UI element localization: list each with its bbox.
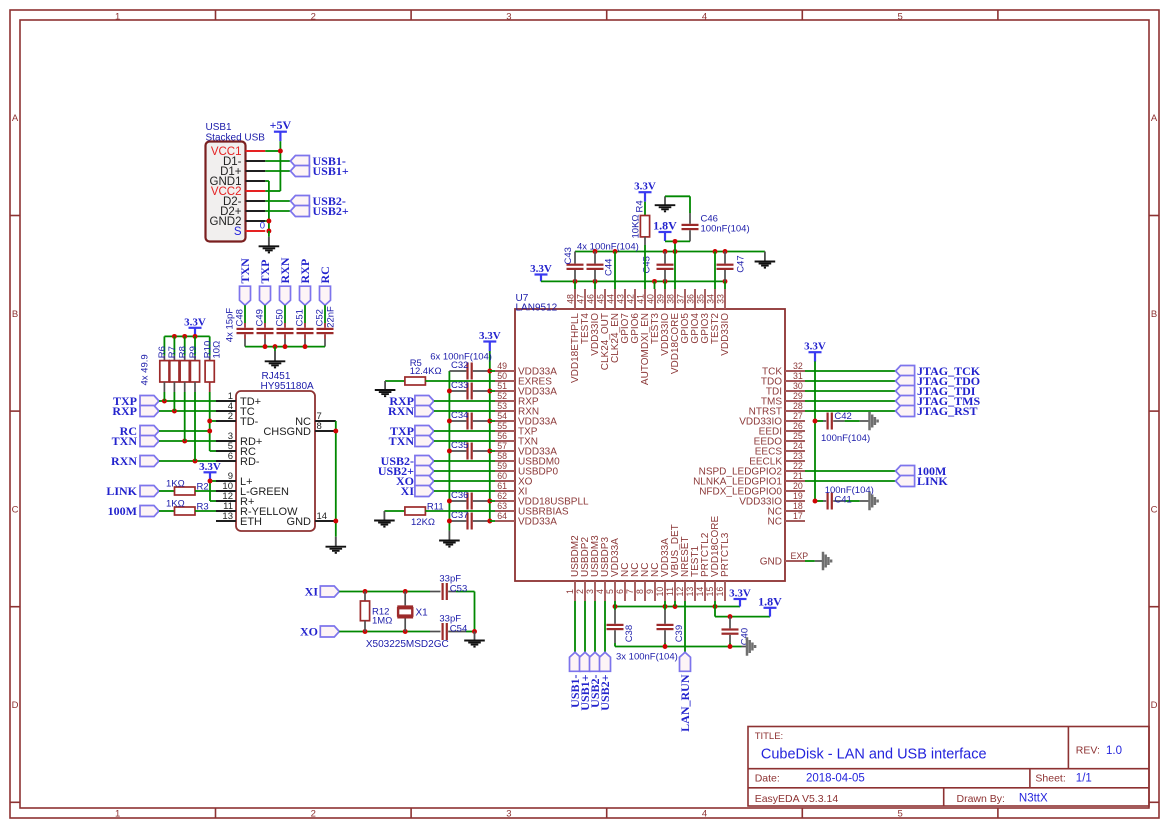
svg-text:2: 2 [228,411,233,422]
U7 pin 15 VDD18CORE [705,516,721,601]
ground at C41 [870,492,878,511]
svg-text:48: 48 [565,294,575,304]
svg-text:X503225MSD2GC: X503225MSD2GC [366,639,449,650]
junction 3.3V rail [573,279,578,284]
junction L+ [208,479,213,484]
port JTAG_TCK [896,364,981,378]
svg-text:50: 50 [497,371,507,381]
svg-text:RXP: RXP [298,259,312,284]
port RXP [298,259,312,305]
svg-text:JTAG_RST: JTAG_RST [917,404,977,418]
svg-text:TXN: TXN [112,434,138,448]
svg-text:C41: C41 [834,495,851,506]
svg-text:C48: C48 [234,309,245,326]
svg-text:C42: C42 [834,411,851,422]
label 4x 15pF [225,308,236,343]
label X503225MSD2GC [366,639,449,650]
svg-text:USB1+: USB1+ [313,164,349,178]
wire gnd to C46 top [665,196,690,213]
wire D to USB2- [265,200,290,202]
wire 3.3V to pin row 421 [490,420,495,422]
svg-text:XI: XI [401,484,415,498]
wire R9 to RXN [194,392,196,461]
capacitor C48 [234,305,253,346]
svg-text:17: 17 [793,511,803,521]
svg-text:PRTCTL3: PRTCTL3 [720,532,731,577]
svg-text:13: 13 [222,511,233,522]
U7 pin 26 EEDI [759,421,805,437]
svg-text:100nF(104): 100nF(104) [701,224,750,235]
ground below cap bus [265,347,286,368]
junction C54/gnd [472,629,477,634]
svg-text:C38: C38 [624,625,635,642]
svg-text:22nF: 22nF [326,306,337,328]
U7 pin 32 TCK [762,361,805,377]
ground at EXP pin [823,552,831,571]
resistor R4 [631,200,650,238]
RJ451 pin 7 NC [295,411,336,428]
port JTAG_TMS [896,394,981,408]
U7 pin 25 EEDO [754,431,805,447]
wire XO to U7 [434,480,495,482]
wire TXP row [159,399,216,404]
U7 pin 64 VDD33A [495,511,557,527]
svg-text:Sheet:: Sheet: [1035,772,1065,784]
svg-text:R9: R9 [188,346,199,358]
svg-text:35: 35 [695,294,705,304]
U7 pin 27 VDD33IO [739,411,805,427]
svg-text:34: 34 [705,294,715,304]
U7 pin 41 AUTOMDXI_EN [635,289,651,385]
svg-text:9: 9 [645,589,655,594]
port TXN [112,434,159,448]
junction C33 right [487,389,492,394]
junction C40 bottom [728,644,733,649]
capacitor C34 [449,410,489,429]
svg-text:USB2+: USB2+ [598,674,612,710]
svg-text:A: A [1151,113,1158,124]
wire U7 to JTAG_TCK [805,370,896,372]
wire pin15 to rail [714,601,716,607]
U7 pin 3 USBDM3 [585,535,601,601]
port 100M [108,504,159,518]
svg-text:C52: C52 [314,309,325,326]
port LINK [896,474,949,488]
RJ451 pin 3 RD+ [216,431,262,448]
svg-text:100nF(104): 100nF(104) [825,485,874,496]
U7 pin 9 NC [645,563,661,601]
svg-text:3.3V: 3.3V [199,461,221,473]
svg-text:20: 20 [793,481,803,491]
U7 pin 28 NTRST [749,401,805,417]
svg-text:3.3V: 3.3V [479,330,501,342]
U7 pin 46 VDD33IO [585,289,601,356]
U7 pin 21 NLNKA_LEDGPIO1 [693,471,805,487]
U7 pin 5 VDD33A [605,538,621,601]
svg-text:59: 59 [497,461,507,471]
junction C42 [813,419,818,424]
svg-text:2: 2 [311,808,316,819]
U7 pin 20 NFDX_LEDGPIO0 [699,481,805,497]
svg-text:CHSGND: CHSGND [263,426,311,438]
USB1 pin GND1 [210,176,266,188]
port USB2+ bottom [598,652,612,710]
port USB1+ [290,164,348,178]
junction C41 [813,499,818,504]
capacitor C40 [722,617,751,647]
junction resistor bus [172,334,177,339]
wire D to USB1+ [265,170,290,172]
wire 1.8V to C46/pin38 [665,241,690,289]
label C43 [563,247,574,264]
svg-text:29: 29 [793,391,803,401]
junction R10/RC [207,429,212,434]
svg-text:13: 13 [685,587,695,597]
junction resistor bus [182,334,187,339]
svg-text:R3: R3 [197,502,209,513]
wire pin5 to rail [614,601,616,607]
wire USB2- to U7 [434,460,495,462]
port 100M [896,464,947,478]
svg-text:40: 40 [645,294,655,304]
ground above C46 [655,196,676,211]
svg-text:19: 19 [793,491,803,501]
wire C53 to C54 [474,592,476,632]
svg-text:TXN: TXN [389,434,415,448]
junction S [266,229,271,234]
svg-text:10: 10 [655,587,665,597]
port TXP [258,260,272,306]
svg-text:C44: C44 [604,259,615,276]
junction C34 right [487,419,492,424]
wire R10 to TD-/RC [210,392,216,451]
junction C35 right [487,449,492,454]
junction C34 left [447,419,452,424]
junction 3.3V rail below [663,604,668,609]
ground below C54 [464,632,485,647]
label 22nF [326,306,337,328]
wire GND EXP to ground [805,560,824,562]
junction 3.3V rail below [613,604,618,609]
svg-text:10KΩ: 10KΩ [631,214,642,238]
svg-text:LINK: LINK [106,484,137,498]
junction cap bus [283,344,288,349]
svg-text:58: 58 [497,451,507,461]
U7 pin 8 NC [635,563,651,601]
svg-text:RD-: RD- [240,456,260,468]
svg-text:6: 6 [228,451,233,462]
svg-text:TD-: TD- [240,416,259,428]
capacitor C49 [254,305,273,346]
svg-text:2: 2 [575,589,585,594]
junction C36 right [487,499,492,504]
svg-text:12KΩ: 12KΩ [411,517,435,528]
svg-text:C51: C51 [294,309,305,326]
port JTAG_TDI [896,384,976,398]
U7 pin 13 TEST1 [685,545,701,601]
resistor R8 [178,336,190,392]
wire U7 to JTAG_TMS [805,400,896,402]
svg-text:C43: C43 [563,247,574,264]
svg-text:1: 1 [565,589,575,594]
wire CHSGND to GND vertical [335,421,337,537]
svg-text:10Ω: 10Ω [212,341,223,359]
U7 pin 40 TEST3 [645,289,661,344]
svg-text:ETH: ETH [240,516,262,528]
connector RJ451 body [236,371,315,531]
svg-text:3.3V: 3.3V [634,181,656,193]
power 1.8V above U7 [653,219,677,242]
junction cap bus [273,344,278,349]
svg-text:42: 42 [625,294,635,304]
svg-text:38: 38 [665,294,675,304]
port XI crystal [305,585,340,599]
port USB1- bottom [568,652,582,708]
svg-text:LAN9512: LAN9512 [516,303,558,314]
wire 3.3V to pin row 391 [490,390,495,392]
power 3.3V at RJ451 [199,461,221,481]
U7 pin 33 VDD33IO [715,289,731,356]
junction XO/X1 [403,629,408,634]
svg-text:8: 8 [635,589,645,594]
svg-text:RXN: RXN [278,257,292,283]
USB1 pin D1- [223,156,265,168]
svg-text:1: 1 [115,11,120,22]
junction pin14 [333,519,338,524]
U7 pin 62 VDD18USBPLL [495,491,589,507]
port JTAG_TDO [896,374,981,388]
svg-text:+5V: +5V [270,118,292,132]
svg-text:D: D [12,700,19,711]
svg-text:B: B [12,309,18,320]
junction C40 top [728,614,733,619]
junction C36 left [447,499,452,504]
connector USB1 body [206,122,266,242]
wire USB2+ to U7 [434,470,495,472]
port RXP [112,404,159,418]
junction XO/R12 [363,629,368,634]
U7 pin 12 NRESET [675,536,691,601]
wire pin10 to rail [664,601,666,607]
svg-text:3: 3 [585,589,595,594]
svg-text:1KΩ: 1KΩ [166,499,185,510]
capacitor C36 [449,490,489,509]
junction C35 left [447,449,452,454]
ground right end of gnd rail [755,252,776,268]
svg-text:RXN: RXN [388,404,414,418]
svg-text:39: 39 [655,294,665,304]
U7 pin 22 NSPD_LEDGPIO2 [699,461,805,477]
svg-text:TXP: TXP [258,260,272,284]
svg-text:1.8V: 1.8V [758,594,782,608]
svg-text:0: 0 [260,221,265,232]
svg-text:5: 5 [897,11,902,22]
wire GND1 to GND2/S [265,181,269,231]
wire 3.3V rail above U7 [541,280,725,282]
svg-text:12: 12 [675,587,685,597]
U7 pin 17 NC [768,511,805,527]
capacitor C35 [449,440,489,459]
power 3.3V right of U7 [804,341,826,362]
wire RXP row [159,409,216,414]
RJ451 pin 8 CHSGND [263,421,335,438]
junction gnd rail [723,249,728,254]
svg-text:18: 18 [793,501,803,511]
capacitor C51 [294,305,313,346]
U7 pin 60 XO [495,471,533,487]
wire 3.3V bus above resistors [164,335,209,337]
port TXP [390,424,434,438]
wire U7 to JTAG_RST [805,410,896,412]
svg-text:1.0: 1.0 [1106,745,1122,757]
U7 pin 49 VDD33A [495,361,557,377]
svg-text:30: 30 [793,381,803,391]
capacitor C53 [439,573,474,600]
svg-text:4x 15pF: 4x 15pF [225,308,236,343]
wire U7 to JTAG_TDI [805,390,896,392]
junction 3.3V rail [663,279,668,284]
svg-text:62: 62 [497,491,507,501]
capacitor C50 [274,305,293,346]
capacitor C42 [815,411,870,444]
wire U7 to USB1- bottom [574,601,576,652]
svg-text:C: C [12,504,19,515]
resistor R5 [385,358,495,385]
svg-text:LINK: LINK [917,474,948,488]
U7 pin 11 VBUS_DET [665,524,681,601]
svg-text:54: 54 [497,411,507,421]
svg-text:32: 32 [793,361,803,371]
U7 pin 31 TDO [761,371,805,387]
junction 3.3V rail [652,279,657,284]
U7 pin 36 GPIO4 [685,289,701,344]
svg-text:5: 5 [605,589,615,594]
U7 pin 51 VDD33A [495,381,557,397]
RJ451 pin 4 TC [216,401,255,418]
svg-text:2: 2 [311,11,316,22]
junction gnd rail [613,249,618,254]
U7 pin 7 NC [625,563,641,601]
junction XI/R12 [363,589,368,594]
svg-text:27: 27 [793,411,803,421]
label 6x 100nF(104) [430,351,492,362]
U7 pin 35 GPIO3 [695,289,711,344]
svg-text:7: 7 [625,589,635,594]
svg-text:RXN: RXN [111,454,137,468]
port USB2- bottom [588,652,602,708]
svg-text:15: 15 [705,587,715,597]
svg-text:3: 3 [506,808,511,819]
capacitor C44 [587,252,604,282]
junction gnd rail [713,249,718,254]
svg-text:24: 24 [793,441,803,451]
port XO [396,474,434,488]
svg-text:XO: XO [300,625,318,639]
capacitor C39 [657,607,686,647]
svg-text:Stacked USB: Stacked USB [206,132,266,143]
USB1 pin VCC1 [211,146,265,158]
svg-text:3: 3 [506,11,511,22]
junction 3.3V rail [723,279,728,284]
wire TXN row [159,439,216,444]
wire TXN to U7 [434,440,495,442]
wire XI row [339,591,440,593]
svg-text:44: 44 [605,294,615,304]
U7 pin 53 RXN [495,401,539,417]
port JTAG_RST [896,404,978,418]
U7 pin 47 TEST4 [575,289,591,344]
power 3.3V above R6-R10 [184,316,206,336]
svg-text:11: 11 [665,587,675,596]
USB1 pin VCC2 [211,186,265,198]
junction +5V/VCC1 [278,149,283,154]
svg-text:C54: C54 [450,623,467,634]
port RXN [278,257,292,305]
svg-text:1: 1 [115,808,120,819]
port USB1+ bottom [578,652,592,710]
port USB2+ [290,204,348,218]
svg-text:1/1: 1/1 [1076,773,1092,785]
svg-text:5: 5 [897,808,902,819]
svg-text:52: 52 [497,391,507,401]
junction 3.3V rail below [673,604,678,609]
svg-text:45: 45 [595,294,605,304]
wire RC row [159,430,210,432]
U7 pin 58 USBDM0 [495,451,560,467]
RJ451 pin 6 RD- [216,451,260,468]
junction C37 right [487,519,492,524]
U7 pin 38 VDD18CORE [665,289,681,374]
capacitor C37 [449,510,489,529]
ground below USB1 [259,231,280,252]
wire RXN row [159,459,216,464]
port LAN_RUN [678,652,692,732]
power 3.3V above left decoupling bank [479,330,501,351]
U7 pin 48 VDD18ETHPLL [565,289,581,383]
wire 3.3V bus vertical [489,351,491,521]
junction C32 right [487,369,492,374]
svg-text:CubeDisk - LAN and USB interfa: CubeDisk - LAN and USB interface [761,747,987,763]
wire +5V to VCC1/VCC2 [265,141,280,191]
svg-text:49: 49 [497,361,507,371]
port TXN [389,434,434,448]
capacitor C54 [439,614,474,640]
junction pin8 [333,429,338,434]
svg-text:33: 33 [715,294,725,304]
port USB2- [381,454,434,468]
USB1 pin GND2 [210,216,266,228]
ground below RJ451 [326,537,347,553]
svg-text:S: S [234,226,242,238]
USB1 pin D1+ [220,166,265,178]
capacitor C43 [567,252,584,282]
svg-text:4x 100nF(104): 4x 100nF(104) [577,241,639,252]
svg-text:43: 43 [615,294,625,304]
junction C39 bottom [663,644,668,649]
junction gnd rail [663,249,668,254]
U7 pin 50 EXRES [495,371,552,387]
port LINK [106,484,159,498]
wire gnd rail above U7 [575,251,765,253]
U7 pin 23 EECLK [749,451,805,467]
port TXP [113,394,159,408]
wire R8 to TXN [184,392,186,441]
port XI [401,484,434,498]
svg-text:3.3V: 3.3V [729,588,751,600]
svg-text:R2: R2 [197,482,209,493]
svg-text:8: 8 [317,421,322,432]
svg-text:USB2+: USB2+ [313,204,349,218]
